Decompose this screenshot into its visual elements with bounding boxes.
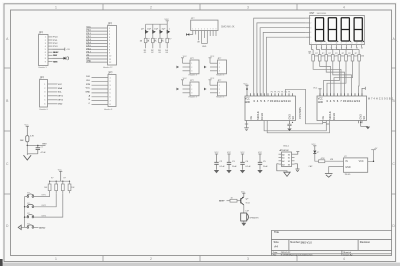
zone tick right bbox=[392, 67, 396, 69]
digit 4 glyph bbox=[354, 18, 362, 41]
push button S3 bbox=[25, 213, 34, 218]
svg-text:4: 4 bbox=[310, 32, 311, 34]
JP5 pin1 left flag bbox=[186, 34, 193, 36]
power flag at D1 bbox=[313, 146, 316, 150]
svg-text:VCC: VCC bbox=[244, 83, 249, 85]
bottom gray band bbox=[0, 263, 400, 266]
svg-text:1: 1 bbox=[191, 63, 192, 65]
svg-text:2: 2 bbox=[191, 67, 192, 69]
svg-text:R?: R? bbox=[355, 53, 357, 55]
node RST bbox=[26, 142, 28, 146]
svg-text:2: 2 bbox=[219, 67, 220, 69]
svg-text:Header 3: Header 3 bbox=[189, 75, 198, 77]
svg-text:VCC: VCC bbox=[359, 160, 364, 163]
svg-text:R?: R? bbox=[64, 177, 66, 179]
title block bbox=[272, 230, 392, 255]
op IC U2 (74HC595) bbox=[317, 96, 367, 121]
svg-text:VCC: VCC bbox=[245, 99, 250, 101]
svg-text:1: 1 bbox=[169, 28, 170, 30]
svg-text:4: 4 bbox=[343, 257, 345, 261]
wire S1 to pullup bbox=[34, 193, 50, 196]
resistor RN5 bbox=[335, 50, 345, 62]
svg-text:9012: 9012 bbox=[246, 203, 250, 205]
svg-text:7: 7 bbox=[210, 28, 211, 30]
svg-text:Revision: Revision bbox=[360, 240, 371, 244]
stub U2 pin13 bbox=[362, 87, 365, 96]
svg-text:S?: S? bbox=[27, 224, 29, 226]
svg-text:RST: RST bbox=[43, 144, 48, 146]
svg-text:R?: R? bbox=[322, 53, 324, 55]
svg-text:GND-2: GND-2 bbox=[283, 146, 289, 148]
svg-text:VCC: VCC bbox=[258, 152, 263, 154]
net label AGND on S4 bbox=[34, 226, 39, 228]
header J6 (3-pin) bbox=[204, 56, 227, 77]
resistor R15 bbox=[26, 136, 29, 142]
title block text bbox=[274, 230, 371, 249]
svg-text:1: 1 bbox=[191, 85, 192, 87]
svg-text:Header 8: Header 8 bbox=[104, 109, 113, 111]
svg-text:BEEP: BEEP bbox=[53, 52, 59, 54]
svg-text:3: 3 bbox=[219, 93, 220, 95]
capacitor C5 bbox=[257, 152, 268, 173]
JP4 wires bbox=[92, 78, 109, 105]
svg-text:M74HC595B1: M74HC595B1 bbox=[368, 99, 394, 101]
display left pins bbox=[306, 18, 310, 37]
svg-text:R?: R? bbox=[348, 53, 350, 55]
connector JP5 (horizontal, display module interface) bbox=[191, 20, 218, 30]
JP3 wires bbox=[48, 84, 58, 104]
svg-text:GND: GND bbox=[87, 61, 92, 63]
svg-text:VCC: VCC bbox=[58, 169, 63, 171]
resistor RK3 bbox=[61, 181, 64, 194]
svg-text:d3: d3 bbox=[361, 43, 363, 45]
resistor RK2 bbox=[55, 181, 58, 194]
U4 ground bbox=[329, 167, 344, 174]
op IC U1 (74HC595) bbox=[245, 96, 296, 121]
svg-text:OE: OE bbox=[250, 116, 253, 120]
svg-text:G2: G2 bbox=[151, 52, 154, 54]
svg-text:CLK: CLK bbox=[86, 80, 91, 82]
svg-text:SRCLK: SRCLK bbox=[256, 111, 260, 120]
connector JP4 bbox=[85, 71, 116, 111]
svg-text:6: 6 bbox=[207, 28, 208, 30]
svg-text:A1: A1 bbox=[282, 157, 284, 160]
svg-text:VCC: VCC bbox=[215, 152, 220, 154]
ground under U2 bbox=[359, 121, 368, 127]
svg-text:10uF: 10uF bbox=[232, 166, 237, 168]
svg-text:DIO: DIO bbox=[86, 76, 90, 78]
svg-text:0.1uF: 0.1uF bbox=[220, 166, 226, 168]
svg-text:LS?: LS? bbox=[246, 211, 249, 213]
svg-text:SMG-V1.0: SMG-V1.0 bbox=[301, 241, 313, 244]
svg-text:1: 1 bbox=[192, 28, 193, 30]
svg-text:b: b bbox=[321, 43, 322, 45]
svg-text:VCC: VCC bbox=[165, 19, 170, 21]
svg-text:GND: GND bbox=[85, 92, 90, 94]
svg-text:4.7uF: 4.7uF bbox=[41, 152, 47, 154]
resistor R14 bbox=[230, 199, 237, 202]
svg-text:GND: GND bbox=[58, 104, 63, 106]
svg-text:P1: P1 bbox=[271, 91, 273, 93]
resistor RN2 bbox=[315, 50, 325, 62]
svg-text:2: 2 bbox=[150, 257, 152, 261]
transistor Q3 bbox=[155, 24, 163, 33]
svg-text:KEY1: KEY1 bbox=[58, 96, 64, 98]
U1 top pin ticks bbox=[247, 93, 293, 96]
svg-text:VCC: VCC bbox=[312, 144, 317, 146]
svg-text:D?: D? bbox=[317, 152, 319, 154]
svg-text:VCC: VCC bbox=[210, 78, 215, 80]
svg-text:Size: Size bbox=[274, 240, 280, 244]
connector JP2 bbox=[86, 22, 117, 69]
display DS1 (4-digit 7-segment) bbox=[310, 15, 365, 44]
svg-text:VCC: VCC bbox=[87, 27, 92, 29]
ground under U3 bbox=[277, 164, 287, 172]
svg-text:VCC: VCC bbox=[210, 56, 215, 58]
svg-text:GND: GND bbox=[202, 46, 207, 48]
svg-text:SPEAKER: SPEAKER bbox=[250, 216, 260, 219]
svg-text:IN: IN bbox=[345, 160, 348, 163]
svg-text:VCC: VCC bbox=[183, 78, 188, 80]
svg-text:R?: R? bbox=[315, 53, 317, 55]
svg-text:JP?: JP? bbox=[108, 22, 113, 26]
connector JP3 bbox=[40, 76, 64, 111]
svg-text:E:\99SE\MyDesign\sm410564.Sch: E:\99SE\MyDesign\sm410564.Sch bbox=[281, 254, 314, 256]
svg-text:4: 4 bbox=[201, 28, 202, 30]
zone tick bottom bbox=[102, 256, 104, 262]
svg-text:JP?: JP? bbox=[39, 31, 44, 35]
digit 2 glyph bbox=[328, 18, 336, 41]
svg-text:9: 9 bbox=[216, 28, 217, 30]
svg-text:GND: GND bbox=[318, 102, 323, 104]
power flag buttons bbox=[59, 171, 62, 181]
resistor R3 under Q3 bbox=[154, 34, 164, 55]
digit 1 glyph bbox=[315, 18, 323, 41]
resistor RN3 bbox=[322, 50, 332, 62]
svg-text:3: 3 bbox=[191, 93, 192, 95]
svg-text:2: 2 bbox=[195, 28, 196, 30]
svg-text:S2: S2 bbox=[288, 161, 290, 163]
svg-text:10K: 10K bbox=[20, 140, 24, 142]
svg-text:14: 14 bbox=[287, 99, 291, 103]
svg-text:JP?: JP? bbox=[40, 76, 45, 80]
svg-text:R?: R? bbox=[342, 53, 344, 55]
transistor Q1 bbox=[141, 24, 149, 33]
svg-text:5: 5 bbox=[204, 28, 205, 30]
resistor R1 under Q1 bbox=[140, 34, 150, 55]
capacitor under U1 latch pin bbox=[287, 121, 291, 129]
svg-text:1: 1 bbox=[219, 85, 220, 87]
button common wire bbox=[24, 197, 26, 228]
transistor Q4 bbox=[163, 24, 171, 33]
svg-text:SO: SO bbox=[292, 116, 295, 120]
wire R13 to U4 bbox=[325, 160, 344, 162]
buzzer LS1 bbox=[241, 213, 249, 221]
svg-text:GND: GND bbox=[345, 166, 351, 169]
digit 3 glyph bbox=[341, 18, 349, 41]
svg-text:VCC: VCC bbox=[313, 87, 318, 89]
svg-text:0.1uF: 0.1uF bbox=[246, 166, 252, 168]
svg-text:VCC: VCC bbox=[58, 84, 63, 86]
svg-text:4.7K: 4.7K bbox=[30, 136, 35, 138]
svg-text:SM410564: SM410564 bbox=[317, 13, 328, 15]
svg-text:P1: P1 bbox=[278, 91, 280, 93]
power flag U1 pin1 bbox=[245, 85, 248, 93]
svg-text:74HC595N: 74HC595N bbox=[299, 107, 302, 119]
wire D1 to R13 bbox=[315, 154, 319, 162]
svg-text:Header 3: Header 3 bbox=[216, 97, 225, 99]
svg-text:Header 9: Header 9 bbox=[39, 67, 48, 69]
ground at buttons bbox=[21, 226, 24, 228]
svg-text:Header 12: Header 12 bbox=[103, 67, 113, 69]
svg-text:RCLK: RCLK bbox=[260, 113, 264, 120]
header J7 (3-pin) bbox=[177, 78, 200, 99]
svg-text:Header 3: Header 3 bbox=[189, 97, 198, 99]
svg-text:R?: R? bbox=[169, 39, 171, 41]
diode on JP1 pin8 bbox=[53, 57, 69, 61]
zone tick left bbox=[4, 67, 11, 69]
weave wires to U2 bbox=[313, 61, 359, 96]
wire S3 to pullup bbox=[34, 193, 63, 217]
svg-text:VCC: VCC bbox=[227, 152, 232, 154]
svg-text:2: 2 bbox=[310, 23, 311, 25]
svg-text:P1: P1 bbox=[274, 91, 276, 93]
power flag reset bbox=[26, 126, 29, 135]
transistor Q5 bbox=[241, 197, 250, 205]
JP5 pin stubs bbox=[193, 31, 216, 44]
svg-text:3: 3 bbox=[247, 257, 249, 261]
power flag above Q5 bbox=[242, 193, 245, 197]
svg-text:10uF: 10uF bbox=[263, 166, 268, 168]
transistor Q2 bbox=[148, 24, 156, 33]
svg-text:2: 2 bbox=[150, 5, 152, 9]
svg-text:File:: File: bbox=[273, 254, 277, 256]
svg-text:SDA: SDA bbox=[58, 87, 63, 90]
svg-text:VCC: VCC bbox=[318, 99, 323, 101]
svg-text:A3: A3 bbox=[282, 163, 284, 166]
svg-text:3: 3 bbox=[198, 28, 199, 30]
JP2 wires bbox=[86, 28, 108, 62]
resistor RN4 bbox=[329, 50, 339, 62]
svg-text:A0: A0 bbox=[282, 153, 284, 156]
svg-text:8: 8 bbox=[213, 28, 214, 30]
wire U1 serial out loop bbox=[286, 89, 323, 124]
svg-text:STB: STB bbox=[86, 84, 91, 86]
svg-text:VCC: VCC bbox=[86, 88, 91, 90]
svg-text:2: 2 bbox=[191, 89, 192, 91]
resistor RN8 bbox=[355, 50, 365, 62]
svg-text:S?: S? bbox=[27, 213, 29, 215]
svg-text:P1: P1 bbox=[288, 91, 290, 93]
push button S4 bbox=[25, 224, 34, 229]
svg-text:JP?: JP? bbox=[108, 71, 113, 75]
svg-text:S3: S3 bbox=[288, 164, 290, 166]
Q5 emitter to buzzer bbox=[243, 205, 245, 213]
svg-text:a: a bbox=[311, 43, 312, 45]
svg-text:GND: GND bbox=[245, 102, 250, 104]
svg-text:1: 1 bbox=[310, 18, 311, 20]
dark corner blob bottom-left bbox=[0, 259, 3, 266]
svg-text:Header 3: Header 3 bbox=[216, 75, 225, 77]
resistor RK4 bbox=[68, 181, 71, 194]
svg-text:KEY3: KEY3 bbox=[42, 215, 47, 217]
svg-text:1: 1 bbox=[55, 257, 57, 261]
svg-text:P1: P1 bbox=[285, 91, 287, 93]
diode D1 bbox=[313, 151, 316, 154]
svg-text:3: 3 bbox=[247, 5, 249, 9]
svg-text:g: g bbox=[326, 43, 327, 45]
resistor R13 bbox=[319, 160, 325, 163]
capacitor C4 bbox=[240, 152, 252, 173]
svg-text:R?: R? bbox=[51, 177, 53, 179]
transistor driver cluster rail bbox=[146, 21, 169, 24]
JP5 U wire pins 4-6 bbox=[202, 43, 208, 45]
svg-text:P1: P1 bbox=[281, 91, 283, 93]
svg-text:78L05: 78L05 bbox=[345, 174, 352, 176]
push button S2 bbox=[25, 203, 34, 208]
svg-text:A4: A4 bbox=[274, 245, 278, 249]
svg-text:KEY1: KEY1 bbox=[42, 195, 47, 197]
resistor RN6 bbox=[342, 50, 352, 62]
svg-text:5: 5 bbox=[310, 37, 311, 39]
svg-text:BEEP: BEEP bbox=[219, 201, 225, 203]
U3 right pin ground bbox=[295, 164, 298, 169]
capacitor C6 bbox=[36, 148, 40, 150]
svg-text:Drawn By:: Drawn By: bbox=[343, 253, 353, 256]
svg-text:KEY2: KEY2 bbox=[58, 100, 64, 102]
svg-text:SRCLK: SRCLK bbox=[328, 111, 332, 120]
svg-text:VCC: VCC bbox=[25, 124, 30, 126]
wires display left to U1 bbox=[310, 18, 311, 39]
wire U1 to U2 (data/clock) bbox=[264, 89, 329, 133]
capacitor C2 bbox=[214, 152, 226, 173]
header J5 (3-pin) bbox=[177, 56, 200, 77]
svg-text:R?: R? bbox=[335, 53, 337, 55]
svg-text:d2: d2 bbox=[356, 43, 358, 45]
svg-text:d1: d1 bbox=[351, 43, 353, 45]
svg-text:S0: S0 bbox=[288, 154, 290, 156]
svg-text:RCLK: RCLK bbox=[332, 113, 336, 120]
svg-text:4: 4 bbox=[343, 5, 345, 9]
svg-text:dp: dp bbox=[336, 43, 338, 45]
resistor R2 under Q2 bbox=[147, 34, 157, 55]
JP1 wires bbox=[48, 37, 53, 62]
svg-text:AT24C02: AT24C02 bbox=[280, 149, 290, 152]
jogs display pins to resistors bbox=[312, 47, 360, 49]
svg-text:VCC: VCC bbox=[241, 152, 246, 154]
resistor R4 under Q4 bbox=[161, 34, 171, 55]
ground under buzzer bbox=[243, 221, 245, 223]
capacitor C3 bbox=[226, 152, 237, 173]
U4 output to power flag bbox=[368, 150, 376, 162]
svg-text:G4: G4 bbox=[165, 52, 168, 54]
svg-text:1: 1 bbox=[55, 5, 57, 9]
wire S2 to pullup bbox=[34, 193, 56, 207]
svg-text:Header 6: Header 6 bbox=[40, 109, 49, 111]
svg-text:e: e bbox=[346, 43, 347, 45]
svg-text:VCC: VCC bbox=[183, 56, 188, 58]
connector JP1 bbox=[39, 31, 71, 69]
svg-text:SO: SO bbox=[363, 116, 366, 120]
svg-text:AGND: AGND bbox=[39, 226, 46, 229]
svg-text:d: d bbox=[341, 43, 342, 45]
svg-text:3: 3 bbox=[219, 71, 220, 73]
resistor RN1 bbox=[309, 50, 319, 62]
svg-text:3: 3 bbox=[191, 71, 192, 73]
resistor RN7 bbox=[348, 50, 358, 62]
svg-text:Number: Number bbox=[290, 240, 300, 244]
svg-text:RST: RST bbox=[53, 55, 58, 57]
svg-text:Title: Title bbox=[274, 230, 279, 234]
svg-text:DS?: DS? bbox=[310, 12, 315, 15]
header J8 (3-pin) bbox=[204, 78, 227, 99]
svg-text:OE: OE bbox=[322, 116, 325, 120]
svg-text:GND: GND bbox=[53, 61, 58, 63]
svg-text:G1: G1 bbox=[144, 52, 147, 54]
resistor RK1 bbox=[48, 181, 51, 194]
svg-text:A2: A2 bbox=[282, 160, 284, 163]
svg-text:R?: R? bbox=[329, 53, 331, 55]
U3 power pin bbox=[295, 152, 300, 155]
svg-text:C?: C? bbox=[41, 147, 43, 149]
power flag on JP1 pin5 bbox=[53, 48, 65, 51]
display bottom pins bbox=[312, 45, 362, 48]
svg-text:S?: S? bbox=[27, 203, 29, 205]
U2 top pin ticks bbox=[320, 93, 362, 96]
svg-text:G3: G3 bbox=[158, 52, 161, 54]
push button S1 bbox=[25, 193, 34, 198]
ground reset bbox=[26, 145, 28, 153]
svg-text:3: 3 bbox=[310, 27, 311, 29]
svg-text:S1: S1 bbox=[288, 158, 290, 160]
ground under U1 bbox=[244, 121, 249, 131]
button pullup rail bbox=[50, 180, 70, 182]
svg-text:KEY2: KEY2 bbox=[42, 205, 47, 207]
svg-text:SMG-MK-JK: SMG-MK-JK bbox=[221, 26, 235, 29]
svg-text:13: 13 bbox=[357, 99, 361, 103]
svg-text:2: 2 bbox=[219, 89, 220, 91]
svg-text:S?: S? bbox=[27, 193, 29, 195]
svg-text:VCC: VCC bbox=[241, 191, 246, 193]
svg-text:1: 1 bbox=[219, 63, 220, 65]
